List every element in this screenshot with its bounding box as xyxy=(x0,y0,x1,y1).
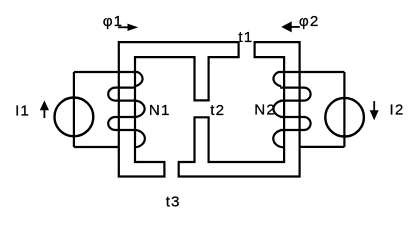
svg-text:t3: t3 xyxy=(166,194,181,211)
svg-text:t1: t1 xyxy=(238,29,253,46)
svg-text:N2: N2 xyxy=(254,102,276,119)
svg-text:φ2: φ2 xyxy=(299,13,320,30)
svg-text:I1: I1 xyxy=(15,102,30,119)
svg-text:φ1: φ1 xyxy=(103,13,124,30)
svg-text:t2: t2 xyxy=(210,102,225,119)
svg-text:I2: I2 xyxy=(390,102,405,119)
svg-text:N1: N1 xyxy=(149,102,171,119)
